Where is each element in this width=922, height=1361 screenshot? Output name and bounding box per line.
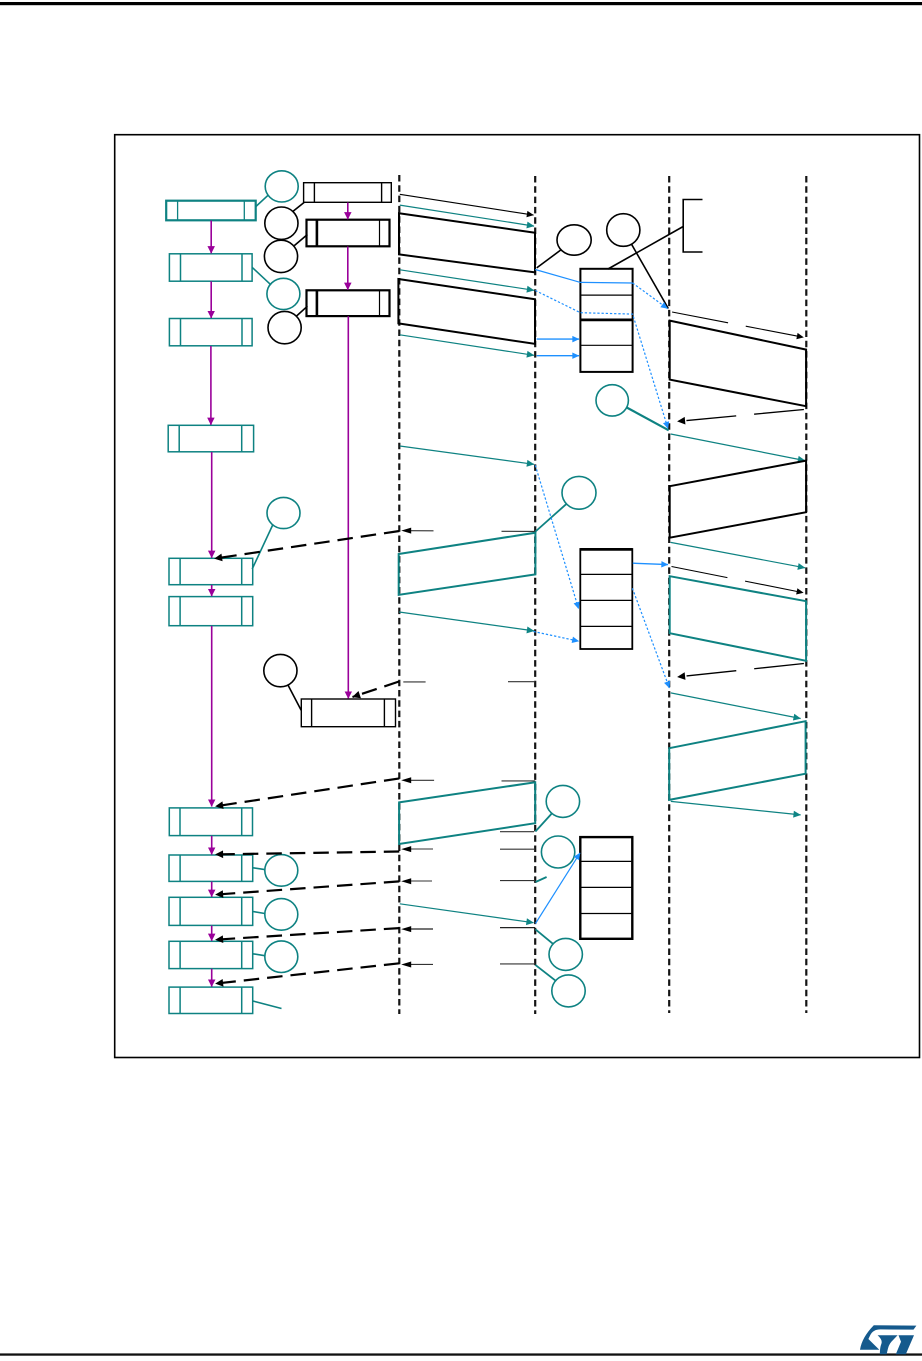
connector bracket to table T1 [608, 227, 683, 270]
blue arrow bl5 T2 to L3 [633, 563, 668, 564]
connector L2 to cF [535, 929, 553, 944]
teal circle cE [541, 836, 574, 868]
blue arrow bl6 T2 to L3 [632, 588, 669, 688]
magenta arrow B2 to B3 [210, 281, 212, 318]
teal circle cJ [265, 941, 298, 973]
teal process box B11 [169, 987, 253, 1013]
connector c1 to B1 [256, 195, 268, 206]
message dashed d2 L3 to L4 [672, 567, 804, 593]
teal circle cF [549, 938, 582, 970]
message teal g9 L3 to L4 [671, 693, 801, 719]
teal quad QG L3-L4 [669, 721, 805, 800]
teal quad QH L1-L2 [399, 782, 535, 844]
return dashed thick L1 to K4 [353, 682, 400, 698]
black process box K3 [307, 290, 390, 316]
magenta arrow B6 to B7 [211, 626, 213, 807]
message dashed d1 L3 to L4 [672, 312, 803, 337]
bracket label [683, 200, 702, 253]
magenta arrow K3 to K4 [347, 316, 349, 698]
connector cD to L2 [535, 813, 552, 831]
message m-black1 L1 to L2 [400, 194, 534, 215]
connector B8 to cH [253, 868, 265, 870]
magenta arrow K2 to K3 [347, 247, 349, 290]
return dashed thin L2 to L1 u2 [403, 681, 535, 683]
teal quad QF L3-L4 [670, 576, 806, 661]
teal process box B4 [168, 425, 253, 452]
blue polyline bl2 L2 to L3 via T1 [535, 291, 668, 429]
connector L2 to cG [535, 965, 555, 981]
message teal g1 L1 to L2 [400, 205, 534, 226]
message teal g3 L1 to L2 [400, 335, 534, 356]
return dashed thick L1 to B9 [216, 881, 400, 894]
blue arrow bl3 L2 to T1 [537, 338, 579, 340]
return u4 thin segments [405, 848, 535, 850]
return dashed thick L1 to B8 [216, 852, 400, 855]
magenta arrow B4 to B5 [211, 452, 213, 558]
return dashed thick L1 to B11 [216, 963, 400, 983]
message teal g10 L3 to L4 [671, 801, 801, 815]
short segment near L2 y832 [500, 831, 534, 833]
connector c5 to K3 [297, 306, 308, 316]
connector B9 to cI [253, 912, 265, 914]
black quad QD L3-L4 [670, 461, 806, 538]
teal circle c6 [267, 497, 300, 528]
message teal g8 L3 to L4 [671, 542, 805, 567]
connector cB to L3 [632, 244, 669, 308]
ST logo T glyph [896, 1335, 914, 1354]
message teal g7 L3 to L4 [671, 434, 805, 461]
blue arrow bl7 L2 to T2 [534, 632, 579, 642]
teal circle cI [265, 899, 298, 931]
teal circle c8 [562, 476, 596, 509]
black circle cB [607, 214, 640, 247]
magenta arrow B5 to B6 [211, 585, 213, 596]
connector c8 to L2 [536, 504, 567, 532]
black process box K2 [307, 220, 390, 247]
teal process box B10 [169, 941, 253, 968]
return dashed thick L1 to B5 [215, 531, 400, 559]
connector c9 to L3 [627, 408, 669, 431]
connector c3 to K2 [294, 235, 307, 246]
teal process box B3 [169, 319, 252, 346]
teal process box B1 [166, 201, 256, 221]
connector c7 to K4 [288, 685, 301, 711]
connector B10 to cJ [253, 954, 265, 956]
black circle cA [557, 225, 591, 255]
black process box K1 [304, 183, 392, 203]
return u3 thin segments [405, 779, 535, 782]
teal circle cD [546, 785, 579, 817]
magenta arrow B9 to B10 [211, 926, 213, 941]
return dashed r31 L4 to L3 [678, 410, 804, 422]
ST logo S middle stroke [878, 1335, 898, 1354]
table T2 [580, 549, 632, 649]
blue polyline bl1 L2 to L3 via T1 [535, 270, 632, 284]
lifeline L3 [668, 176, 670, 1013]
black quad QA L1-L2 [399, 213, 535, 272]
return dashed thick L1 to B7 [216, 778, 400, 806]
connector c2 to K1 [293, 202, 305, 211]
figure frame [115, 135, 920, 1058]
page top rule [0, 2, 922, 5]
return dashed thin L2 to L1 u1 [408, 530, 535, 533]
teal process box B8 [169, 855, 253, 881]
magenta arrow B10 to B11 [211, 969, 213, 987]
magenta arrow B8 to B9 [211, 882, 213, 897]
connector B2 to c4 [252, 267, 271, 285]
connector c6 to B5 [252, 525, 273, 569]
magenta arrow K1 to K2 [347, 203, 349, 220]
teal circle c1 [265, 171, 298, 202]
connector tail B11 [253, 1001, 282, 1009]
teal quad QE L1-L2 [399, 533, 536, 595]
magenta arrow B1 to B2 [210, 221, 212, 254]
black circle c5 [268, 311, 301, 343]
teal process box B6 [169, 597, 253, 626]
teal process box B7 [169, 808, 252, 836]
return u6 thin segments [405, 928, 535, 929]
teal process box B5 [169, 558, 253, 584]
return u5 thin segments [405, 880, 535, 882]
lifeline L2 [534, 176, 536, 1014]
lifeline L4 [805, 176, 807, 1013]
return dashed thick L1 to B10 [216, 928, 400, 940]
teal circle c4 [267, 278, 300, 309]
black quad QC L3-L4 [670, 321, 806, 407]
black quad QB L1-L2 [398, 279, 535, 344]
blue arrow bl4 L2 to T1 [537, 355, 579, 357]
message teal g6 L1 to L2 [400, 904, 534, 923]
message teal g5 L1 to L2 [399, 612, 534, 631]
teal circle c9 [596, 385, 628, 416]
teal circle cG [552, 975, 585, 1007]
lifeline L1 [398, 175, 400, 1014]
black process box K4 [301, 699, 395, 727]
teal process box B9 [169, 897, 253, 925]
connector cE to L2 [536, 877, 547, 882]
blue arrow bl8 L2 to T3 [536, 853, 581, 924]
black circle c7 [264, 654, 297, 686]
black circle c3 [264, 240, 297, 272]
ST logo S glyph [860, 1325, 916, 1350]
return u7 thin segments [405, 963, 535, 966]
table T1 [580, 269, 632, 372]
connector cA to L2 [537, 250, 561, 268]
magenta arrow B7 to B8 [211, 836, 213, 855]
magenta arrow B3 to B4 [210, 346, 212, 425]
teal circle cH [265, 855, 298, 887]
black circle c2 [265, 207, 298, 239]
table T3 [580, 837, 632, 939]
return dashed r32 L4 to L3 [678, 664, 804, 677]
blue dashed arrow bl9 L2 to T2 [535, 465, 578, 609]
teal process box B2 [169, 254, 252, 281]
page bottom rule [0, 1353, 922, 1355]
message teal g2 L1 to L2 [400, 270, 534, 291]
message teal g4 L1 to L2 [400, 446, 534, 464]
